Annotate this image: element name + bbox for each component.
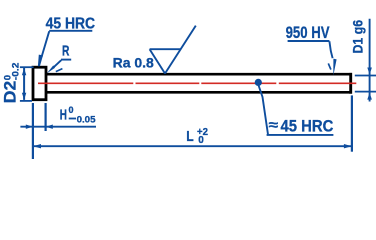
svg-text:950 HV: 950 HV xyxy=(286,23,331,42)
leader from dot xyxy=(259,86,268,135)
D2 extension tick bottom xyxy=(20,100,32,102)
svg-text:R: R xyxy=(62,44,70,60)
D2 upper arrowhead xyxy=(22,68,26,75)
H extension line right xyxy=(44,103,46,131)
H extension line left xyxy=(32,103,34,159)
underline 45 HRC xyxy=(49,30,92,32)
leader R xyxy=(53,60,61,68)
D1 extension line top xyxy=(355,75,376,77)
L left arrowhead xyxy=(33,144,41,148)
leader 45 HRC xyxy=(42,31,50,56)
arrowhead R lower barb xyxy=(56,69,63,72)
svg-text:0: 0 xyxy=(198,135,204,146)
surface finish symbol xyxy=(150,26,196,74)
H right arrowhead xyxy=(46,125,53,129)
hardness dot on shaft xyxy=(255,79,262,86)
svg-text:D2: D2 xyxy=(1,81,20,103)
arrowhead 45 HRC xyxy=(38,55,43,67)
arrowhead 950 HV left barb xyxy=(328,63,331,69)
svg-text:H: H xyxy=(60,108,67,124)
svg-text:0.05: 0.05 xyxy=(77,114,96,124)
arrowhead 950 HV xyxy=(333,59,336,76)
pin shaft top line xyxy=(46,73,352,76)
svg-text:-0.2: -0.2 xyxy=(10,63,21,81)
underline R xyxy=(61,59,71,61)
svg-text:L: L xyxy=(186,128,194,145)
D2 dimension line xyxy=(23,68,25,100)
H dimension line xyxy=(20,126,96,128)
svg-text:45 HRC: 45 HRC xyxy=(281,117,334,135)
D2 lower arrowhead xyxy=(22,93,26,100)
arrowhead R xyxy=(47,65,55,73)
centerline (red) xyxy=(38,82,356,84)
pin head (black rectangle) xyxy=(33,67,46,100)
svg-text:0: 0 xyxy=(69,105,74,115)
L dimension line xyxy=(33,145,352,147)
leader 950 HV xyxy=(329,41,332,58)
svg-text:≈: ≈ xyxy=(269,117,279,133)
underline 950 HV xyxy=(288,40,330,42)
svg-text:D1 g6: D1 g6 xyxy=(351,20,367,54)
L right arrowhead xyxy=(344,144,352,148)
D2 extension tick top xyxy=(20,66,34,68)
pin shaft bottom line xyxy=(46,91,352,94)
D1 upper arrowhead xyxy=(367,68,372,75)
D1 extension line bottom xyxy=(355,91,376,93)
pin shaft end face xyxy=(349,73,352,94)
D1 dimension line xyxy=(369,19,371,102)
L extension line right xyxy=(351,95,353,151)
H left arrowhead xyxy=(26,125,33,129)
label H lower deviation minus sign xyxy=(69,118,76,120)
D1 lower arrowhead xyxy=(367,93,372,100)
svg-text:Ra 0.8: Ra 0.8 xyxy=(113,55,154,71)
underline approx 45 HRC xyxy=(267,134,334,136)
